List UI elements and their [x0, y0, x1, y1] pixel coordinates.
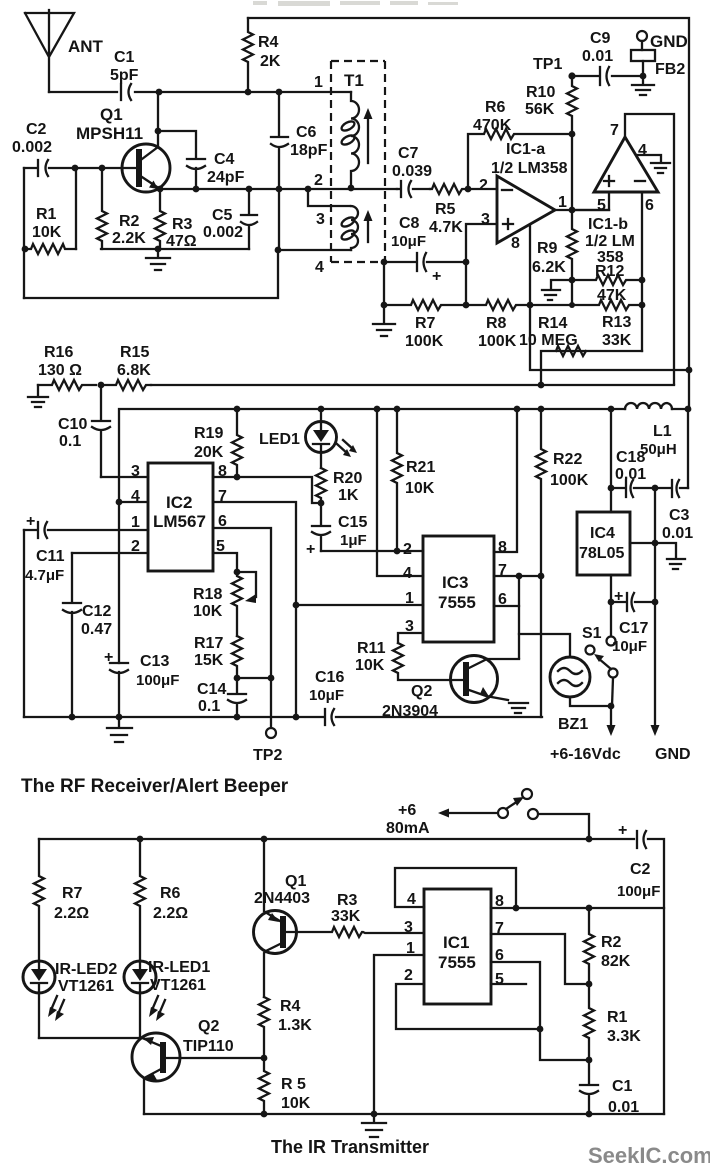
emitter/T1 pin2 long wire: [158, 188, 397, 190]
node R13 right on pin6 line: [639, 302, 646, 309]
LED1: [259, 409, 357, 468]
wire R9 node to R13 bus: [571, 280, 573, 305]
resistor R19: [194, 409, 242, 477]
IR-LED1: [124, 959, 210, 1037]
svg-text:R16: R16: [44, 344, 73, 361]
node R13 left: [569, 302, 575, 308]
wire IC3 pin8 to bus: [494, 409, 517, 552]
svg-text:T1: T1: [344, 71, 364, 90]
resistor R5: [429, 184, 468, 236]
capacitor C8: [384, 215, 466, 285]
node C1 on rail: [586, 1111, 593, 1118]
ground at R16 left: [28, 385, 48, 407]
svg-text:2.2K: 2.2K: [112, 230, 146, 247]
svg-text:2: 2: [403, 541, 412, 558]
capacitor C9: [572, 30, 643, 85]
svg-text:0.002: 0.002: [12, 139, 52, 156]
node pin7/R22 column: [538, 573, 545, 580]
svg-text:C2: C2: [26, 121, 47, 138]
node C18 left: [608, 485, 615, 492]
node collector/C4 top: [155, 128, 162, 135]
wire IC3 pin6: [494, 605, 519, 607]
capacitor C7: [392, 145, 432, 197]
svg-text:C17: C17: [619, 620, 648, 637]
svg-text:20K: 20K: [194, 444, 224, 461]
svg-text:R2: R2: [601, 934, 622, 951]
T1 primary coil: [340, 92, 359, 187]
svg-text:100K: 100K: [478, 333, 517, 350]
capacitor C14: [197, 678, 246, 717]
wire IC2 pin7 to ground rail: [213, 502, 296, 717]
svg-text:R18: R18: [193, 586, 222, 603]
svg-text:5: 5: [597, 197, 606, 214]
capacitor C15: [306, 503, 367, 558]
node C6 top: [276, 89, 283, 96]
svg-text:80mA: 80mA: [386, 820, 430, 837]
resistor R13: [530, 300, 642, 349]
capacitor C4 feedback loop: [158, 131, 245, 189]
svg-text:R5: R5: [435, 201, 456, 218]
node C17 left: [608, 599, 615, 606]
svg-text:Q2: Q2: [411, 683, 432, 700]
wire IC3 pin2: [397, 550, 423, 552]
svg-text:R4: R4: [258, 34, 279, 51]
svg-text:R3: R3: [337, 892, 358, 909]
wire bus to C18/IC4: [610, 409, 612, 512]
node pin1 column on rail: [371, 1111, 378, 1118]
svg-text:130 Ω: 130 Ω: [38, 362, 82, 379]
transmitter V+ bus: [39, 839, 664, 1114]
node C12 on rail: [69, 714, 76, 721]
svg-text:TP2: TP2: [253, 747, 282, 764]
svg-text:C4: C4: [214, 151, 235, 168]
test point TP1: [568, 72, 575, 79]
svg-text:C7: C7: [398, 145, 419, 162]
top rail wire: [248, 18, 689, 369]
resistor R20: [316, 468, 362, 504]
wire IC1-b pin5: [572, 192, 609, 210]
svg-text:100K: 100K: [405, 333, 444, 350]
potentiometer R18: [193, 572, 256, 636]
svg-text:Q1: Q1: [100, 105, 123, 124]
svg-text:1K: 1K: [338, 487, 359, 504]
svg-text:S1: S1: [582, 625, 602, 642]
node C5 top: [246, 186, 253, 193]
wire IC3 pin3 to R11: [398, 633, 423, 643]
svg-text:470K: 470K: [473, 117, 512, 134]
svg-text:C1: C1: [612, 1078, 633, 1095]
wire IC1-b pin7 supply loop: [625, 114, 674, 384]
resistor R7 transmitter: [34, 839, 89, 961]
svg-text:4.7K: 4.7K: [429, 219, 463, 236]
svg-text:4: 4: [638, 142, 647, 159]
svg-text:2.2Ω: 2.2Ω: [54, 905, 89, 922]
svg-text:0.002: 0.002: [203, 224, 243, 241]
wire to buzzer: [519, 634, 570, 657]
resistor R1: [25, 206, 76, 254]
wire IC2 pin3: [101, 476, 148, 478]
resistor R3 transmitter: [286, 892, 423, 937]
node emitter/R3: [157, 186, 164, 193]
svg-text:C3: C3: [669, 507, 690, 524]
svg-text:0.01: 0.01: [662, 525, 693, 542]
svg-text:LED1: LED1: [259, 431, 300, 448]
svg-text:+: +: [26, 513, 35, 530]
svg-text:R22: R22: [553, 451, 582, 468]
node pin7 column on rail: [293, 714, 300, 721]
node R19 bottom: [234, 474, 241, 481]
node R8 right: [527, 302, 534, 309]
svg-text:10K: 10K: [355, 657, 385, 674]
svg-text:Q1: Q1: [285, 873, 306, 890]
svg-text:10K: 10K: [193, 603, 223, 620]
supply wire B across: [151, 384, 674, 386]
resistor R11: [355, 640, 463, 680]
svg-text:TIP110: TIP110: [183, 1038, 234, 1055]
svg-text:R7: R7: [62, 885, 83, 902]
node output/R10 column: [569, 207, 576, 214]
capacitor C5: [203, 189, 257, 249]
capacitor C12: [63, 553, 112, 717]
wire pin3 node down to R7 bus: [465, 262, 467, 305]
svg-text:47Ω: 47Ω: [166, 233, 197, 250]
svg-text:+6: +6: [398, 802, 416, 819]
ground below transmitter rail: [362, 1114, 386, 1137]
svg-text:R2: R2: [119, 213, 140, 230]
capacitor C2 transmitter: [617, 822, 660, 900]
ferrite bead FB2 and GND terminal: [631, 31, 688, 78]
right filter column: [654, 488, 656, 602]
svg-text:8: 8: [498, 539, 507, 556]
svg-text:2K: 2K: [260, 53, 281, 70]
capacitor C6: [271, 92, 328, 250]
inductor L1: [625, 403, 677, 458]
node C17 right: [652, 599, 659, 606]
GND arrow: [654, 602, 656, 726]
wire IC3 pin4 to bus: [377, 409, 423, 576]
node ground junction: [155, 246, 162, 253]
wire IC1 pin7 bracket: [491, 934, 589, 984]
svg-text:R15: R15: [120, 344, 149, 361]
svg-text:ANT: ANT: [68, 37, 104, 56]
svg-text:+: +: [104, 649, 113, 666]
wire IC2 pin1 / C11: [24, 529, 148, 531]
svg-text:7555: 7555: [438, 593, 476, 612]
svg-text:C11: C11: [36, 548, 65, 565]
node R20/C15/pin8: [318, 500, 325, 507]
bus junction dots: [234, 406, 241, 413]
svg-text:3: 3: [316, 211, 325, 228]
wire IC1-b pin6 down: [641, 192, 643, 351]
svg-text:100μF: 100μF: [136, 672, 179, 689]
svg-text:+: +: [618, 822, 627, 839]
svg-text:8: 8: [511, 235, 520, 252]
svg-text:10 MEG: 10 MEG: [519, 332, 578, 349]
resistor R6 feedback: [468, 99, 572, 190]
svg-text:7555: 7555: [438, 953, 476, 972]
resistor R9: [532, 210, 577, 280]
wire C2 to Q1 base: [24, 167, 136, 169]
svg-text:10μF: 10μF: [309, 687, 344, 704]
T1 secondary arrow: [367, 220, 369, 242]
svg-text:10K: 10K: [32, 224, 62, 241]
svg-text:R1: R1: [36, 206, 57, 223]
test point TP2: [266, 728, 276, 738]
wire antenna to T1 pin1: [49, 91, 351, 93]
wire IC2 pin4: [119, 501, 148, 503]
wire R2/R3/C5 bottom: [101, 248, 249, 250]
resistor R2 transmitter: [584, 908, 631, 984]
resistor R14: [519, 315, 642, 385]
svg-text:Q2: Q2: [198, 1018, 219, 1035]
resistor R22: [536, 409, 589, 717]
svg-text:0.47: 0.47: [81, 621, 112, 638]
svg-text:C14: C14: [197, 681, 226, 698]
node R7 bus left: [381, 302, 388, 309]
node C2/R1 loop top: [72, 165, 79, 172]
wire IC1 pin6 bracket: [491, 962, 589, 1060]
capacitor C16 in rail: [309, 669, 344, 725]
svg-text:LM567: LM567: [153, 512, 206, 531]
svg-text:10K: 10K: [281, 1095, 311, 1112]
node supply junction below S1: [608, 703, 615, 710]
resistor R4 transmitter: [259, 997, 312, 1058]
svg-text:L1: L1: [653, 423, 672, 440]
node C14/TP2 junction: [268, 675, 275, 682]
svg-text:1: 1: [131, 514, 140, 531]
svg-text:VT1261: VT1261: [150, 977, 206, 994]
V+ bus of receiver: [119, 409, 688, 502]
svg-text:0.01: 0.01: [582, 48, 613, 65]
svg-text:+: +: [432, 268, 441, 285]
resistor R17: [194, 635, 242, 678]
wire IC1-a pin8 to bus: [529, 226, 531, 305]
node Q1 emitter column top: [261, 836, 268, 843]
svg-text:6.2K: 6.2K: [532, 259, 566, 276]
svg-text:IC3: IC3: [442, 573, 468, 592]
svg-text:R4: R4: [280, 998, 301, 1015]
svg-text:100μF: 100μF: [617, 883, 660, 900]
antenna ANT: [25, 10, 104, 92]
IC4 ground pin wire: [630, 543, 685, 569]
svg-text:R10: R10: [526, 84, 555, 101]
node IC3 pin1 branch: [293, 602, 300, 609]
node R16/R15/C10 junction: [98, 382, 105, 389]
capacitor C10: [58, 385, 110, 477]
svg-text:IC2: IC2: [166, 493, 192, 512]
wire IC4 bottom: [610, 575, 612, 602]
svg-text:0.1: 0.1: [198, 698, 220, 715]
svg-text:10K: 10K: [405, 480, 435, 497]
T1 pin3 stub: [308, 189, 350, 206]
ground below Q1 stage: [146, 249, 170, 270]
wire A detector bus to top rail: [530, 305, 689, 370]
capacitor C18: [611, 449, 655, 497]
node C13 on rail: [116, 714, 123, 721]
svg-text:GND: GND: [655, 746, 691, 763]
IR-LED2: [23, 961, 117, 1038]
svg-text:C16: C16: [315, 669, 344, 686]
svg-text:R6: R6: [485, 99, 506, 116]
svg-text:R7: R7: [415, 315, 436, 332]
resistor R16: [38, 344, 96, 390]
wire IC1 pin4 loop: [395, 868, 516, 908]
capacitor C11: [25, 513, 65, 584]
node R4/R5/base junction: [261, 1055, 268, 1062]
node R12 right on pin6 line: [639, 277, 646, 284]
node pin3 stub: [305, 186, 312, 193]
node pin2/pin6 junction: [537, 1026, 544, 1033]
node R5 on rail: [261, 1111, 268, 1118]
wire IC1-b pin4 to ground: [637, 155, 670, 173]
wire IC1 pin5 stub: [491, 983, 526, 985]
resistor R5 transmitter: [259, 1058, 311, 1114]
svg-text:SeekIC.com: SeekIC.com: [588, 1143, 710, 1168]
resistor R2: [97, 168, 146, 249]
svg-text:C8: C8: [399, 215, 420, 232]
node pin7/collector column: [516, 573, 523, 580]
capacitor C1: [110, 49, 139, 100]
node base/R2 top: [99, 165, 106, 172]
svg-text:R12: R12: [595, 263, 624, 280]
node C6 crossing pin2 wire: [276, 186, 283, 193]
node antenna/C1/Q1 collector junction: [156, 89, 163, 96]
svg-text:50μH: 50μH: [640, 441, 677, 458]
node pin2 input junction: [465, 186, 472, 193]
svg-text:4: 4: [315, 259, 324, 276]
wire IC1 pin1 to ground: [374, 955, 424, 1114]
svg-text:3: 3: [481, 211, 490, 228]
node IC4 ground/C-column: [652, 540, 659, 547]
svg-text:MPSH11: MPSH11: [76, 124, 143, 143]
svg-text:5: 5: [495, 971, 504, 988]
svg-text:+6-16Vdc: +6-16Vdc: [550, 746, 621, 763]
svg-text:10μF: 10μF: [612, 638, 647, 655]
svg-text:C6: C6: [296, 124, 317, 141]
node R6 column top: [137, 836, 144, 843]
resistor R8: [466, 300, 530, 350]
capacitor C2: [12, 121, 52, 176]
svg-text:GND: GND: [650, 32, 688, 51]
transistor Q2 2N3904: [382, 656, 528, 721]
transistor Q2 TIP110: [132, 1018, 264, 1114]
transmitter ground rail: [144, 1113, 664, 1115]
svg-text:1: 1: [558, 194, 567, 211]
svg-text:56K: 56K: [525, 101, 555, 118]
resistor R4: [243, 18, 281, 92]
svg-text:BZ1: BZ1: [558, 716, 588, 733]
node R18 top: [234, 569, 241, 576]
svg-text:2: 2: [314, 172, 323, 189]
resistor R10: [525, 76, 577, 210]
svg-text:33K: 33K: [602, 332, 632, 349]
wire C2 left loop: [24, 168, 76, 298]
capacitor C3: [655, 480, 693, 542]
node switch branch: [586, 836, 593, 843]
capacitor C1 transmitter: [580, 1060, 639, 1116]
wire pin3 of IC1-a: [466, 224, 497, 262]
svg-text:1.3K: 1.3K: [278, 1017, 312, 1034]
op-amp IC1-b: [585, 122, 658, 266]
svg-text:3.3K: 3.3K: [607, 1028, 641, 1045]
svg-text:C12: C12: [82, 603, 111, 620]
svg-text:The RF Receiver/Alert Beeper: The RF Receiver/Alert Beeper: [21, 776, 289, 797]
node T1 pin4 / C6 bottom: [275, 247, 282, 254]
svg-text:IC1: IC1: [443, 933, 469, 952]
transformer T1 dashed box: [331, 61, 385, 262]
wire IC2 pin6 to TP2: [213, 528, 271, 728]
node pin4/pin8: [513, 905, 520, 912]
node R9 bottom / R12 left: [569, 277, 576, 284]
node pin3/R7 bus: [463, 302, 470, 309]
svg-text:15K: 15K: [194, 652, 224, 669]
svg-text:+: +: [306, 541, 315, 558]
node R6 right / R10 bottom: [569, 131, 576, 138]
node C9/FB2 junction: [640, 73, 647, 80]
svg-text:R6: R6: [160, 885, 181, 902]
node IC3 pin2 / R21: [394, 548, 401, 555]
svg-text:100K: 100K: [550, 472, 589, 489]
node bus/L1 right to rail column: [685, 406, 692, 413]
wire BZ1 bottom: [570, 697, 611, 706]
resistor R7: [384, 300, 466, 350]
buzzer BZ1: [550, 657, 590, 733]
svg-text:R8: R8: [486, 315, 507, 332]
bottom rail of Q1 stage: [24, 250, 278, 298]
ground below FB2: [632, 76, 654, 95]
svg-text:3: 3: [404, 919, 413, 936]
node pin8/R2 column: [586, 905, 593, 912]
svg-text:10μF: 10μF: [391, 233, 426, 250]
svg-text:33K: 33K: [331, 908, 361, 925]
svg-text:24pF: 24pF: [207, 169, 245, 186]
svg-text:4: 4: [407, 891, 416, 908]
svg-text:2: 2: [404, 967, 413, 984]
svg-text:7: 7: [610, 122, 619, 139]
svg-text:2: 2: [479, 177, 488, 194]
resistor R1 transmitter: [584, 984, 641, 1060]
collector column wire: [518, 576, 520, 658]
svg-text:78L05: 78L05: [579, 545, 624, 562]
node C18 right: [652, 485, 659, 492]
resistor R3: [155, 189, 197, 250]
receiver ground rail: [24, 716, 542, 718]
svg-text:IR-LED1: IR-LED1: [148, 959, 210, 976]
svg-text:R1: R1: [607, 1009, 628, 1026]
svg-text:6.8K: 6.8K: [117, 362, 151, 379]
T1 pin4 wire: [278, 249, 351, 251]
wire LED2 to Q2 collector: [39, 1037, 140, 1039]
svg-text:C15: C15: [338, 514, 367, 531]
svg-text:4.7μF: 4.7μF: [25, 567, 64, 584]
IC3 7555: [403, 536, 507, 642]
node C4 bottom on emitter wire: [193, 186, 200, 193]
wire IC3 pin7: [494, 575, 541, 577]
svg-text:R19: R19: [194, 425, 223, 442]
resistor R21: [392, 409, 435, 551]
svg-text:5pF: 5pF: [110, 67, 139, 84]
op-amp IC1-a: [479, 141, 568, 252]
capacitor C13: [104, 649, 179, 689]
svg-text:IC1-a: IC1-a: [506, 141, 545, 158]
node C8 left: [381, 259, 388, 266]
svg-text:R3: R3: [172, 216, 193, 233]
C11 left column to rail: [23, 530, 25, 717]
svg-text:1/2 LM358: 1/2 LM358: [491, 160, 568, 177]
wire R17 node to TP2 column: [237, 677, 271, 679]
wire IC1-a output: [555, 209, 609, 211]
svg-text:4: 4: [403, 565, 412, 582]
